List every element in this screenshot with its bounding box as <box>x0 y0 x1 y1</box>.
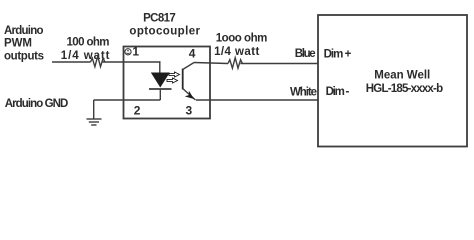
phototransistor Q1 base bar <box>182 69 184 90</box>
pin label 2 <box>134 104 141 118</box>
wire White opto pin 3 to Mean Well Dim- <box>196 99 318 101</box>
svg-text:4: 4 <box>189 46 196 60</box>
pin label 3 <box>186 104 193 118</box>
LED D1 cathode bar <box>149 88 172 90</box>
label White <box>290 87 317 99</box>
svg-text:3: 3 <box>186 104 193 118</box>
svg-text:1/4 watt: 1/4 watt <box>214 46 259 58</box>
label Arduino GND <box>5 98 69 110</box>
phototransistor Q1 emitter <box>183 89 196 101</box>
svg-text:PC817: PC817 <box>143 13 176 25</box>
light arrow lower <box>167 78 178 83</box>
pin 1 indicator dot <box>125 49 131 55</box>
svg-text:White: White <box>290 87 317 99</box>
wire PWM output to opto pin 1 <box>52 61 161 63</box>
label Blue <box>295 48 316 60</box>
svg-text:2: 2 <box>134 104 141 118</box>
optocoupler U1 PC817 box <box>124 47 211 119</box>
wire Blue to Mean Well Dim+ <box>240 63 318 65</box>
Mean Well driver box <box>318 15 467 147</box>
phototransistor Q1 emitter arrowhead <box>185 91 194 99</box>
value label 100 ohm 1/4 watt <box>61 36 110 61</box>
phototransistor Q1 collector <box>183 63 194 70</box>
svg-text:Arduino: Arduino <box>4 25 44 37</box>
LED D1 triangle <box>151 73 170 88</box>
terminal label Dim - <box>326 86 350 98</box>
label Arduino PWM outputs <box>4 25 44 63</box>
svg-text:1: 1 <box>132 44 139 58</box>
resistor R1 100 ohm <box>91 56 105 67</box>
pin label 1 <box>132 44 139 58</box>
svg-text:Mean Well: Mean Well <box>374 70 430 82</box>
light arrow upper <box>169 72 180 77</box>
svg-text:Dim -: Dim - <box>326 86 350 98</box>
resistor R2 1000 ohm <box>228 58 242 69</box>
svg-text:Dim +: Dim + <box>324 49 352 61</box>
svg-text:PWM: PWM <box>4 38 32 50</box>
ground symbol <box>87 100 102 125</box>
wire opto pin 4 to resistor <box>194 63 228 64</box>
svg-text:1ooo ohm: 1ooo ohm <box>216 33 268 45</box>
LED D1 cathode lead <box>159 90 161 100</box>
pin label 4 <box>189 46 196 60</box>
value label 1ooo ohm 1/4 watt <box>214 33 267 59</box>
svg-text:HGL-185-xxxx-b: HGL-185-xxxx-b <box>366 83 443 95</box>
label Mean Well HGL-185-xxxx-b <box>366 70 443 95</box>
terminal label Dim + <box>324 49 352 61</box>
wire Arduino GND to opto pin 2 <box>94 99 161 101</box>
svg-text:Blue: Blue <box>295 48 316 60</box>
LED D1 anode lead <box>159 61 161 72</box>
svg-text:100 ohm: 100 ohm <box>67 36 110 48</box>
svg-text:Arduino GND: Arduino GND <box>5 98 69 110</box>
label PC817 optocoupler <box>129 13 200 38</box>
svg-text:optocoupler: optocoupler <box>129 25 200 37</box>
svg-text:outputs: outputs <box>4 51 44 63</box>
